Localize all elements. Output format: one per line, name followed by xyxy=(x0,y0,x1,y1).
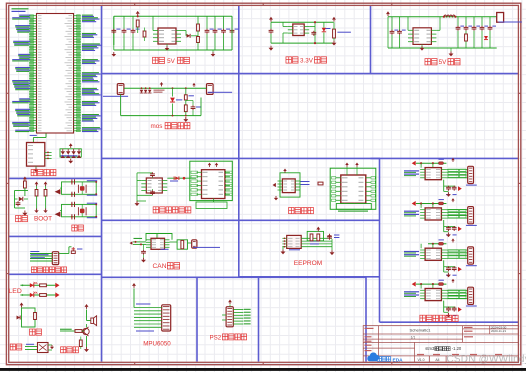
svg-text:PS2: PS2 xyxy=(210,334,222,341)
svg-text:mos: mos xyxy=(151,123,163,130)
svg-text:BOOT: BOOT xyxy=(34,216,52,223)
svg-text:1/1: 1/1 xyxy=(411,335,416,339)
svg-text:V1.0: V1.0 xyxy=(418,358,425,362)
svg-text:3.3V: 3.3V xyxy=(300,57,314,64)
svg-text:5V: 5V xyxy=(167,58,176,65)
svg-text:-1.20: -1.20 xyxy=(452,346,462,351)
svg-text:MPU6050: MPU6050 xyxy=(143,341,171,348)
svg-text:CSDN @WWlindyw: CSDN @WWlindyw xyxy=(447,354,526,365)
svg-text:2020-11-21: 2020-11-21 xyxy=(491,329,506,333)
svg-text:A4: A4 xyxy=(435,358,439,362)
svg-text:EEPROM: EEPROM xyxy=(294,260,323,267)
svg-text:CAN: CAN xyxy=(153,263,167,270)
svg-text:LED: LED xyxy=(9,288,22,295)
svg-text:Schematic1: Schematic1 xyxy=(410,328,432,333)
svg-text:EDA: EDA xyxy=(393,357,404,363)
svg-text:5V: 5V xyxy=(439,59,448,66)
